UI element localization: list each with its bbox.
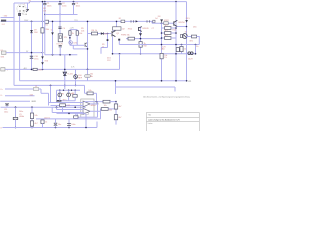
wire vcc stub a [69,30,71,31]
junction rail3 x55 [55,127,57,129]
zener Z1 [41,56,44,59]
wire Q3 emitter link [177,26,186,28]
junction ref line B [75,85,77,87]
wire bus E [5,95,35,97]
svg-text:K1: K1 [35,86,37,88]
wire op1 minus drop [48,93,50,105]
wire C14 bottom [68,126,70,128]
junction pot rail 3 [68,90,69,91]
junction ladder d [175,32,177,34]
svg-text:4k7: 4k7 [165,30,168,32]
junction bus A x186 [186,80,188,82]
svg-text:4.7k: 4.7k [71,66,74,68]
wire op1 in+ [49,102,84,104]
junction Q3 emitter [186,26,188,28]
wire pot rail [57,89,81,91]
wire R8 stem bottom [74,97,76,101]
svg-text:LAD: LAD [161,48,165,51]
junction V42 sek [42,52,44,54]
wire secondary rail [45,54,78,56]
junction feed x15 [15,106,17,108]
junction rail3 x69 [68,127,70,129]
wire op1 out up [97,102,99,104]
svg-text:Ladeschaltgerät für Autobatter: Ladeschaltgerät für Autobatterien 12V [148,118,180,121]
svg-text:10uH: 10uH [188,58,193,60]
fuse SI2 body [85,75,91,78]
wire divider column [31,107,33,127]
wire ladder row 1 left [162,27,165,29]
series resistor R25 [33,68,37,70]
capacitor C4 plates [58,26,61,28]
diode D6 [139,33,142,36]
LED D2 circle [69,41,73,45]
wire TL431 column [64,55,66,89]
svg-text:1: 1 [24,3,25,5]
resistor R22 ladder [165,37,172,40]
junction pot rail 1 [59,90,60,91]
wire P1 stem [59,90,61,93]
diode D5 [101,32,104,35]
IC U1 pin box a [81,113,84,115]
wire xtal column top [15,107,17,117]
wire bus F drop right [174,87,176,92]
wire V195 drop [195,45,197,54]
wire regulator out rail [5,68,120,70]
resistor R16 [180,46,183,51]
wire C13 bottom [55,125,57,127]
svg-text:220k: 220k [45,29,49,31]
shunt R13 box [164,22,168,25]
wire mains jog [151,21,153,23]
svg-text:K2: K2 [1,50,3,52]
zener Z2 [41,62,44,65]
svg-text:4k7: 4k7 [165,35,168,37]
junction C1 bottom [44,14,46,16]
title block divider 2 [147,120,200,122]
junction sec x60 [59,54,61,56]
junction fb C [96,101,98,103]
resistor R9 [87,92,93,95]
wire P2 stem [68,90,70,93]
junction out x42 [42,69,44,71]
svg-text:100n: 100n [71,124,75,126]
wire gnd stub [0,100,30,102]
svg-text:4k7: 4k7 [118,117,121,119]
svg-text:1%: 1% [164,57,167,59]
transformer TR1 windings [19,6,24,12]
wire gate branch [107,34,109,48]
wire C13 top [55,119,57,123]
svg-text:R6 1k: R6 1k [92,30,98,32]
resistor R11 [139,42,142,48]
wire mains bottom rail [1,20,153,22]
wire C12 drop [62,107,64,114]
capacitor C12 body [60,104,66,107]
wire +12V rail [119,44,199,46]
resistor R22 [114,115,117,120]
zener ZD2 mark [107,39,109,41]
wire fb loop 1 drop [97,104,99,117]
wire vcc stub b [76,30,78,31]
svg-text:JP1: JP1 [188,81,191,83]
junction sec x52 [52,54,54,56]
diode D10 [74,75,78,79]
wire vcc drop V140 [140,28,142,54]
wire gate branch h [101,47,108,49]
svg-text:LM324: LM324 [90,105,96,107]
junction mains tap [87,21,89,23]
wire fb loop 2 drop [100,111,102,119]
wire C14 top [68,119,70,124]
wire ladder row 1 right [171,27,176,29]
wire R12 out [110,101,116,103]
wire ladder row 2 left [162,32,165,34]
junction bus F riser [115,80,117,82]
resistor R10 [128,37,135,40]
svg-text:D16: D16 [193,27,196,29]
wire bottom rail 3 [3,127,98,129]
wire pot drop P1 [59,97,61,101]
IC U1 pin box b [85,113,89,115]
resistor R24 [41,120,44,124]
wire K2 to bus [6,52,43,54]
wire op2 stub a [56,107,58,109]
wire R20 out [108,108,116,110]
resistor R8 [73,95,77,98]
wire op1 plus drop [50,85,52,102]
wire rail3 corner up [96,122,98,128]
svg-text:4MHz: 4MHz [19,116,24,118]
junction base node [140,38,142,40]
resistor R19 [30,121,33,126]
svg-text:0R5: 0R5 [38,69,41,71]
junction ladder b [161,37,163,39]
wire neutral stub [1,17,15,19]
wire batt edge drop [198,37,200,45]
svg-text:Leiter:: Leiter: [148,122,153,125]
wire V119 drop [119,54,121,70]
wire R8 stem top [74,90,76,94]
svg-text:100n: 100n [19,111,23,113]
svg-text:10k: 10k [34,115,37,117]
svg-text:10k: 10k [104,105,107,107]
junction V31 sek [31,52,33,54]
svg-text:B1: B1 [119,18,121,20]
switch S1 [26,9,29,12]
junction C1 top [44,1,46,3]
resistor R17 [160,53,163,58]
svg-text:10k: 10k [88,90,91,92]
wire right drop V176 [175,2,177,81]
junction xtal bottom [15,127,17,129]
svg-text:1k: 1k [102,46,104,48]
wire R7 column [76,35,78,45]
junction C2 bottom [59,14,61,16]
resistor R20 [101,108,108,111]
svg-text:Title: Title [148,113,151,116]
TL431 U3 [63,72,66,75]
junction op1 out [97,103,99,105]
svg-text:Anrufbeantworter- und Spannung: Anrufbeantworter- und Spannungsversorgun… [143,96,189,99]
relay contact K1a [34,87,39,90]
capacitor C1 [44,2,46,4]
relay K1 hatch [59,36,61,39]
wire ref branch [75,69,77,85]
wire fb box out [93,92,96,94]
svg-text:R8: R8 [72,93,74,95]
junction rail1 x69 [68,113,70,115]
svg-text:C12: C12 [66,105,69,107]
wire fb loop left [76,113,78,117]
wire bus D step [41,92,49,94]
svg-text:S1: S1 [45,25,47,27]
wire driver input [88,33,112,35]
junction out x87 [87,69,89,71]
wire feed rail [1,106,86,108]
junction R3 top [42,1,44,3]
wire lamp column [69,35,71,45]
capacitor C5 plates [59,45,62,47]
svg-text:1N4: 1N4 [34,32,37,34]
resistor R20 ladder [165,27,172,30]
potentiometer P1 [58,93,62,97]
wire V181 drop [181,45,183,54]
svg-text:T4: T4 [185,32,187,34]
svg-text:100u: 100u [4,111,8,113]
connector K2 body [2,51,7,54]
svg-text:ADJ: ADJ [24,67,27,70]
wire R23 stem [75,113,77,115]
resistor R6 [92,32,98,35]
svg-text:1: 1 [7,70,8,72]
wire fb box link [85,92,88,94]
diode D1 mark [51,32,54,35]
wire switch feed [27,3,29,9]
svg-text:0R1: 0R1 [190,40,193,42]
relay K1 coil [58,34,62,42]
capacitor C3 [73,2,75,4]
capacitor C11 polarized [6,105,8,107]
transistor Q1 [112,31,115,37]
wire Q1 emitter drop [112,37,114,54]
svg-text:TL431: TL431 [67,73,72,75]
wire V87 column [87,34,89,70]
wire op2 stub b [51,107,53,112]
transistor Q4 base box [180,35,183,38]
diode D11 mark [118,39,120,41]
wire +supply rail top [30,1,187,3]
resistor R15 [192,35,197,38]
junction bus B x50 [50,85,52,87]
wire sense drop V161 [161,23,163,81]
svg-text:KL1: KL1 [2,24,5,26]
wire link low h [73,48,87,50]
junction rail x181 [181,44,183,46]
wire U2 input stub [116,21,118,26]
diode D15 [185,20,188,23]
svg-text:10k 1%: 10k 1% [44,117,50,119]
wire U2 output stub [112,30,114,31]
fuse F2 on L2 [18,13,20,16]
resistor R3 [41,28,44,33]
wire op2 in- [52,112,83,114]
junction H2 x60 [59,21,61,23]
wire bus A [20,80,187,82]
wire ladder row 2 right [171,32,176,34]
svg-text:TR1: TR1 [74,20,77,22]
wire pot drop P2 [68,97,70,101]
transistor Q3 [174,20,178,26]
junction rail x176 [175,44,177,46]
svg-text:1k: 1k [72,33,74,35]
wire fuse branch [87,69,89,80]
wire bus F left riser [115,81,117,94]
svg-text:10k: 10k [79,33,82,35]
wire emitter row [152,22,174,24]
svg-text:1k: 1k [45,122,47,124]
diode D8 [160,19,163,22]
svg-text:P1: P1 [62,93,64,95]
wire op2 out up [100,109,102,111]
wire op1 out [90,103,98,105]
wire winding column top [59,15,61,34]
wire R23 out [75,117,77,120]
junction driver node [107,33,109,35]
wire secondary drop V31 [31,21,33,69]
svg-text:4k7: 4k7 [165,25,168,27]
junction emitter rail [140,53,142,55]
wire ladder row 3 right [171,37,176,39]
wire bus B drop [84,85,86,93]
diode D3 marks [131,20,134,22]
junction mid rail x112 [112,53,114,55]
wire fb drop [96,93,98,101]
junction ladder c [175,27,177,29]
wire R24 bottom [42,124,44,128]
wire mid rail H3 [45,14,78,16]
junction mid rail x119 [119,53,121,55]
diode D4 body [153,20,155,22]
svg-text:10u: 10u [58,124,61,126]
wire pot link rail [57,100,76,102]
resistor R7 [76,31,78,36]
capacitor C9 body [176,48,179,52]
junction top rail right [175,1,177,3]
wire vertical to driver [87,21,89,33]
capacitor C13 [54,122,57,124]
wire V56 link [56,90,58,101]
wire D1 column [52,21,54,54]
wire R3 column [42,2,44,70]
wire Q4 out [187,36,192,38]
resistor R21 ladder [165,32,172,35]
junction H2 x42 [42,21,44,23]
wire comp column [115,102,117,125]
wire vcc tee [70,29,77,31]
svg-text:R14: R14 [172,30,175,32]
junction comp col mid [115,108,117,110]
transistor Q5 [85,42,88,47]
resistor R21 [114,104,117,109]
svg-text:1M: 1M [43,10,46,12]
junction pot rail 4 [71,90,72,91]
transistor Q4 [182,34,187,39]
wire fb line C [85,101,104,103]
connector KL1 body [1,20,6,22]
wire left bus L1 [13,3,15,85]
capacitor C2 [59,2,61,4]
svg-text:O-: O- [0,95,2,97]
wire op2 in+ [57,109,84,111]
svg-text:10k: 10k [109,109,112,111]
wire cross link [70,44,84,46]
junction pot rail 2 [63,90,64,91]
wire bottom rail 2 [36,118,101,120]
inductor L1 [188,52,193,55]
junction out x31 [31,69,33,71]
wire fuse jog [29,2,31,3]
thermistor TH1 [56,100,61,102]
svg-text:PWM 31k: PWM 31k [121,34,130,36]
diode D9 [30,30,33,33]
wire link low [72,45,74,49]
transformer TR1 circle [17,4,26,13]
capacitor C14 [67,123,70,125]
junction bus A x176 [175,80,177,82]
junction comp col top [115,101,117,103]
crystal X1 [13,117,18,119]
junction V176 rail [175,53,177,55]
junction TL431 bus [64,85,66,87]
junction bus A x161 [161,80,163,82]
svg-text:470u: 470u [34,59,38,61]
resistor R23 [74,116,78,119]
wire base row [126,38,162,40]
junction rail3 x86 [85,127,87,129]
wire winding column bottom [59,47,61,55]
junction C2 top [59,1,61,3]
junction ladder a [161,32,163,34]
wire IC gnd pin [85,114,87,128]
IC U2 [113,27,122,30]
wire op2 row [100,108,103,110]
wire D11 stub [118,41,120,45]
svg-text:4k7: 4k7 [118,106,121,108]
svg-text:T1.6A: T1.6A [22,13,28,16]
transistor Q2 [139,27,142,32]
potentiometer P2 [67,93,71,97]
capacitor C10 polarized [30,55,33,57]
diode bridge B1 body [121,20,125,23]
svg-text:GND1: GND1 [31,101,36,103]
junction sec x70 [69,54,71,56]
wire bus B [14,84,85,86]
IC U1 outline [81,99,94,117]
svg-text:5V6: 5V6 [45,61,48,63]
resistor R12 [103,100,110,103]
wire bus D left 2 [39,88,42,90]
wire bus D left [5,88,34,90]
wire fb loop 1 [77,116,97,118]
junction feed x31 [31,106,33,108]
wire xtal column bottom [15,120,17,128]
wire R15 out [197,36,200,38]
junction U2 input [116,21,118,23]
wire bottom rail 1 [57,112,86,114]
junction TL431 top [64,69,66,71]
connector K3 body [1,68,5,71]
op-amp U1A [83,101,90,107]
